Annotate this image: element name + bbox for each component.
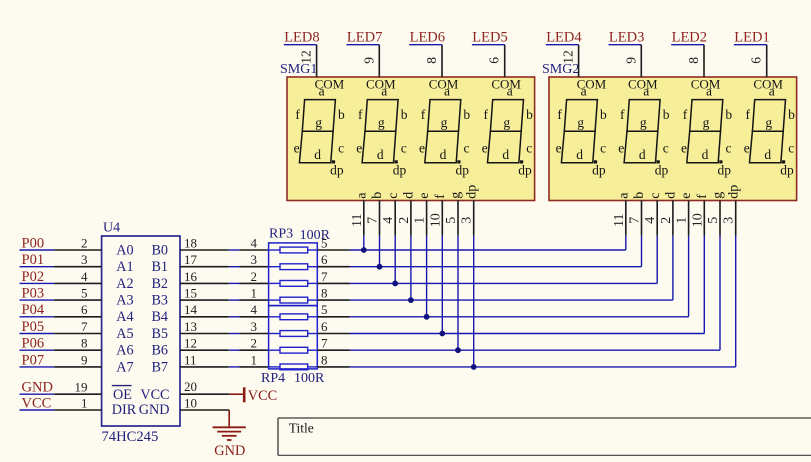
junction at SMG1 pin b xyxy=(377,264,383,270)
svg-text:c: c xyxy=(663,141,669,156)
svg-text:e: e xyxy=(419,141,425,156)
svg-text:74HC245: 74HC245 xyxy=(102,429,159,445)
U4 pin A5 (#7) wire with net label P05 xyxy=(20,319,134,342)
pin number 9 (SMG1 COM2) xyxy=(361,57,376,64)
junction at SMG1 pin dp xyxy=(471,364,477,370)
svg-text:18: 18 xyxy=(184,235,197,250)
svg-text:d: d xyxy=(576,147,583,162)
svg-text:1: 1 xyxy=(413,217,428,224)
svg-text:g: g xyxy=(577,115,584,130)
pin number 12 (SMG2 COM1) xyxy=(561,50,576,64)
svg-text:f: f xyxy=(483,107,488,122)
svg-text:1: 1 xyxy=(81,395,88,410)
svg-text:e: e xyxy=(482,141,488,156)
svg-text:f: f xyxy=(620,107,625,122)
svg-text:9: 9 xyxy=(81,352,88,367)
U4 pin B0 (#18) wire to RP pin 4 xyxy=(151,235,268,258)
svg-text:g: g xyxy=(441,115,448,130)
designator SMG2 xyxy=(542,62,579,77)
svg-text:1: 1 xyxy=(251,286,258,301)
wire segment-e net: row to SMG2 pin e xyxy=(350,236,689,317)
svg-text:A2: A2 xyxy=(116,276,133,292)
svg-text:dp: dp xyxy=(518,163,532,178)
U4 pin A7 (#9) wire with net label P07 xyxy=(20,352,134,375)
wire segment-b net: row to SMG2 pin b xyxy=(350,236,642,267)
svg-text:d: d xyxy=(702,147,709,162)
wire and net label LED7 xyxy=(347,29,383,45)
svg-text:g: g xyxy=(378,115,385,130)
svg-text:c: c xyxy=(726,141,732,156)
designator RP4 xyxy=(261,371,285,386)
svg-text:P06: P06 xyxy=(22,336,45,352)
U4 pin VCC (#20) wire xyxy=(180,379,229,394)
svg-text:7: 7 xyxy=(628,217,643,224)
U4 pin A1 (#3) wire with net label P01 xyxy=(20,252,134,275)
svg-text:A1: A1 xyxy=(116,259,133,275)
wire segment-f net: row to SMG2 pin f xyxy=(350,236,705,334)
svg-text:B4: B4 xyxy=(151,309,168,325)
svg-text:LED6: LED6 xyxy=(410,29,445,45)
RP4 output pin 5 xyxy=(317,302,349,317)
pin dp (#3) of SMG2 xyxy=(722,185,742,236)
pin a (#11) of SMG2 xyxy=(612,192,632,236)
pin a (#11) of SMG1 xyxy=(350,192,370,236)
svg-text:GND: GND xyxy=(139,402,170,418)
digit SMG2.1 seven-segment xyxy=(556,83,607,177)
svg-text:f: f xyxy=(421,107,426,122)
wire SMG1 pin a drop xyxy=(363,236,365,250)
wire and net label LED1 xyxy=(734,29,770,45)
U4 pin B7 (#11) wire to RP pin 1 xyxy=(151,352,268,375)
svg-text:b: b xyxy=(663,107,670,122)
svg-text:7: 7 xyxy=(366,217,381,224)
pin f (#10) of SMG2 xyxy=(690,194,710,236)
svg-text:8: 8 xyxy=(321,352,328,367)
svg-text:g: g xyxy=(711,192,726,199)
svg-text:4: 4 xyxy=(381,217,396,224)
junction at SMG1 pin c xyxy=(392,281,398,287)
wire and net label LED8 xyxy=(284,29,320,45)
svg-text:9: 9 xyxy=(361,57,376,64)
svg-text:P02: P02 xyxy=(22,269,45,285)
pin number 8 (SMG1 COM3) xyxy=(424,57,439,64)
svg-text:A6: A6 xyxy=(116,343,133,359)
pin f (#10) of SMG1 xyxy=(428,194,448,236)
pin b (#7) of SMG2 xyxy=(628,192,648,236)
resistor RP3.3 xyxy=(269,281,318,287)
power port VCC xyxy=(229,387,277,404)
svg-text:10: 10 xyxy=(690,213,705,227)
svg-text:b: b xyxy=(370,192,385,199)
resistor RP4.2 xyxy=(269,331,318,337)
U4 pin OE (#19) wire with net label GND xyxy=(20,380,170,403)
svg-text:4: 4 xyxy=(643,217,658,224)
U4 pin B5 (#13) wire to RP pin 3 xyxy=(151,319,268,342)
svg-text:a: a xyxy=(616,192,631,199)
pin COM of digit SMG2.2 xyxy=(628,45,658,92)
svg-text:4: 4 xyxy=(251,235,258,250)
pin COM of digit SMG2.3 xyxy=(691,45,721,92)
junction at SMG1 pin e xyxy=(424,314,430,320)
wire SMG1 pin dp drop xyxy=(473,236,475,367)
svg-text:e: e xyxy=(618,141,624,156)
svg-text:dp: dp xyxy=(592,163,606,178)
svg-text:2: 2 xyxy=(659,217,674,224)
resistor RP3.4 xyxy=(269,297,318,303)
svg-text:dp: dp xyxy=(330,163,344,178)
pin COM of digit SMG2.4 xyxy=(753,45,783,92)
svg-text:e: e xyxy=(417,193,432,199)
svg-text:g: g xyxy=(449,192,464,199)
svg-text:4: 4 xyxy=(81,269,88,284)
svg-text:c: c xyxy=(788,141,794,156)
junction at SMG1 pin d xyxy=(408,297,414,303)
svg-text:11: 11 xyxy=(350,214,365,227)
pin COM of digit SMG1.2 xyxy=(366,45,396,92)
svg-text:U4: U4 xyxy=(103,221,120,236)
value 100R of RP3 xyxy=(300,228,331,243)
digit SMG2.3 seven-segment xyxy=(681,83,732,177)
svg-text:b: b xyxy=(401,107,408,122)
svg-text:e: e xyxy=(294,141,300,156)
svg-text:e: e xyxy=(744,141,750,156)
svg-text:P07: P07 xyxy=(22,352,45,368)
RP3 output pin 5 xyxy=(317,235,349,250)
svg-text:c: c xyxy=(401,141,407,156)
svg-text:1: 1 xyxy=(675,217,690,224)
svg-text:g: g xyxy=(765,115,772,130)
svg-text:e: e xyxy=(679,193,694,199)
pin number 8 (SMG2 COM3) xyxy=(686,57,701,64)
svg-text:4: 4 xyxy=(251,302,258,317)
svg-text:11: 11 xyxy=(184,352,197,367)
svg-text:b: b xyxy=(725,107,732,122)
svg-text:COM: COM xyxy=(429,77,459,92)
pin g (#5) of SMG1 xyxy=(444,192,464,236)
pin c (#4) of SMG2 xyxy=(643,193,663,236)
svg-text:LED4: LED4 xyxy=(546,29,582,45)
resistor RP4.1 xyxy=(269,314,318,320)
svg-text:5: 5 xyxy=(706,217,721,224)
digit SMG1.4 seven-segment xyxy=(482,83,533,177)
svg-text:14: 14 xyxy=(184,302,198,317)
svg-text:d: d xyxy=(664,192,679,199)
wire and net label LED6 xyxy=(409,29,445,45)
svg-text:d: d xyxy=(764,147,771,162)
wire and net label LED4 xyxy=(546,29,583,45)
svg-text:7: 7 xyxy=(321,336,328,351)
svg-text:g: g xyxy=(640,115,647,130)
U4 pin B3 (#15) wire to RP pin 1 xyxy=(151,286,268,309)
svg-text:3: 3 xyxy=(722,217,737,224)
pin dp (#3) of SMG1 xyxy=(460,185,480,236)
pin e (#1) of SMG2 xyxy=(675,193,695,236)
svg-text:P05: P05 xyxy=(22,319,45,335)
svg-text:c: c xyxy=(648,193,663,199)
svg-text:5: 5 xyxy=(444,217,459,224)
svg-text:12: 12 xyxy=(184,336,197,351)
svg-text:8: 8 xyxy=(321,286,328,301)
svg-text:f: f xyxy=(295,107,300,122)
svg-text:e: e xyxy=(681,141,687,156)
resistor RP3.2 xyxy=(269,264,318,270)
svg-text:LED1: LED1 xyxy=(734,29,769,45)
svg-text:c: c xyxy=(464,141,470,156)
svg-text:8: 8 xyxy=(686,57,701,64)
wire SMG1 pin b drop xyxy=(379,236,381,267)
resistor pack RP3 body xyxy=(269,243,318,306)
svg-text:g: g xyxy=(315,115,322,130)
svg-text:7: 7 xyxy=(321,269,328,284)
svg-text:dp: dp xyxy=(464,185,479,199)
pin number 6 (SMG1 COM4) xyxy=(487,57,502,64)
svg-text:LED8: LED8 xyxy=(284,29,319,45)
pin c (#4) of SMG1 xyxy=(381,193,401,236)
pin COM of digit SMG2.1 xyxy=(577,45,607,92)
wire SMG1 pin e drop xyxy=(426,236,428,317)
pin d (#2) of SMG2 xyxy=(659,192,679,236)
svg-text:6: 6 xyxy=(749,57,764,64)
svg-text:e: e xyxy=(556,141,562,156)
pin number 12 (SMG1 COM1) xyxy=(299,50,314,64)
svg-text:17: 17 xyxy=(184,252,198,267)
wire and net label LED3 xyxy=(609,29,645,45)
pin b (#7) of SMG1 xyxy=(366,192,386,236)
svg-text:B6: B6 xyxy=(151,343,168,359)
svg-text:6: 6 xyxy=(81,302,88,317)
svg-text:d: d xyxy=(402,192,417,199)
svg-text:RP4: RP4 xyxy=(261,371,285,386)
svg-text:c: c xyxy=(386,193,401,199)
svg-text:3: 3 xyxy=(81,252,88,267)
svg-text:g: g xyxy=(503,115,510,130)
svg-text:12: 12 xyxy=(299,50,314,64)
RP3 output pin 8 xyxy=(317,286,349,301)
svg-text:b: b xyxy=(788,107,795,122)
svg-text:c: c xyxy=(526,141,532,156)
svg-text:5: 5 xyxy=(321,302,328,317)
resistor pack RP4 body xyxy=(269,306,318,369)
svg-text:10: 10 xyxy=(184,395,197,410)
pin e (#1) of SMG1 xyxy=(413,193,433,236)
svg-text:A0: A0 xyxy=(116,242,133,258)
junction at SMG1 pin a xyxy=(361,247,367,253)
svg-text:8: 8 xyxy=(81,336,88,351)
svg-text:DIR: DIR xyxy=(112,402,137,418)
svg-text:f: f xyxy=(557,107,562,122)
svg-text:A4: A4 xyxy=(116,309,133,325)
svg-text:P04: P04 xyxy=(22,302,45,318)
U4 pin A2 (#4) wire with net label P02 xyxy=(20,269,134,292)
svg-text:c: c xyxy=(338,141,344,156)
designator RP3 xyxy=(269,227,293,242)
svg-text:dp: dp xyxy=(726,185,741,199)
svg-text:dp: dp xyxy=(655,163,669,178)
RP4 output pin 8 xyxy=(317,352,349,367)
svg-text:COM: COM xyxy=(366,77,396,92)
svg-text:d: d xyxy=(377,147,384,162)
svg-text:B2: B2 xyxy=(151,276,168,292)
junction at SMG1 pin g xyxy=(455,347,461,353)
svg-text:11: 11 xyxy=(612,214,627,227)
svg-text:3: 3 xyxy=(251,319,258,334)
svg-text:b: b xyxy=(463,107,470,122)
svg-text:2: 2 xyxy=(251,269,258,284)
wire segment-c net: row to SMG2 pin c xyxy=(350,236,658,284)
svg-text:d: d xyxy=(639,147,646,162)
part type 74HC245 xyxy=(102,429,159,445)
wire segment-dp net: row to SMG2 pin dp xyxy=(350,236,736,367)
value 100R of RP4 xyxy=(294,371,325,386)
svg-text:P00: P00 xyxy=(22,235,45,251)
svg-text:OE: OE xyxy=(113,387,132,403)
svg-text:b: b xyxy=(600,107,607,122)
display SMG1 body xyxy=(287,77,535,201)
pin COM of digit SMG1.3 xyxy=(429,45,459,92)
svg-text:7: 7 xyxy=(81,319,88,334)
svg-text:f: f xyxy=(745,107,750,122)
U4 pin B1 (#17) wire to RP pin 3 xyxy=(151,252,268,275)
display SMG2 body xyxy=(549,77,797,201)
svg-text:dp: dp xyxy=(393,163,407,178)
U4 pin B6 (#12) wire to RP pin 2 xyxy=(151,336,268,359)
digit SMG1.3 seven-segment xyxy=(419,83,470,177)
svg-text:5: 5 xyxy=(321,235,328,250)
svg-text:f: f xyxy=(683,107,688,122)
designator U4 xyxy=(103,221,120,236)
RP3 output pin 6 xyxy=(317,252,349,267)
digit SMG2.2 seven-segment xyxy=(618,83,669,177)
resistor RP3.1 xyxy=(269,247,318,253)
svg-text:9: 9 xyxy=(623,57,638,64)
svg-text:20: 20 xyxy=(184,379,197,394)
svg-text:8: 8 xyxy=(424,57,439,64)
svg-text:P01: P01 xyxy=(22,252,45,268)
svg-text:COM: COM xyxy=(753,77,783,92)
IC U4 74HC245 body xyxy=(102,236,180,426)
svg-text:LED2: LED2 xyxy=(672,29,707,45)
pin g (#5) of SMG2 xyxy=(706,192,726,236)
svg-text:16: 16 xyxy=(184,269,198,284)
resistor RP4.3 xyxy=(269,347,318,353)
svg-text:a: a xyxy=(354,192,369,199)
svg-text:B5: B5 xyxy=(151,326,168,342)
wire SMG1 pin f drop xyxy=(441,236,443,334)
ground GND xyxy=(213,410,246,459)
svg-text:2: 2 xyxy=(251,336,258,351)
svg-text:COM: COM xyxy=(491,77,521,92)
svg-text:GND: GND xyxy=(214,443,245,459)
svg-text:B1: B1 xyxy=(151,259,168,275)
svg-text:LED7: LED7 xyxy=(347,29,382,45)
svg-text:13: 13 xyxy=(184,319,197,334)
svg-text:RP3: RP3 xyxy=(269,227,293,242)
svg-text:d: d xyxy=(440,147,447,162)
svg-text:6: 6 xyxy=(321,319,328,334)
svg-text:A5: A5 xyxy=(116,326,133,342)
svg-text:dp: dp xyxy=(718,163,732,178)
svg-text:A7: A7 xyxy=(116,359,133,375)
U4 pin GND (#10) wire xyxy=(180,395,229,410)
title block xyxy=(278,418,811,455)
svg-text:d: d xyxy=(314,147,321,162)
svg-text:dp: dp xyxy=(456,163,470,178)
wire SMG1 pin d drop xyxy=(410,236,412,301)
wire and net label LED2 xyxy=(671,29,707,45)
pin COM of digit SMG1.1 xyxy=(315,45,345,92)
svg-text:COM: COM xyxy=(315,77,345,92)
svg-text:10: 10 xyxy=(428,213,443,227)
U4 pin B4 (#14) wire to RP pin 4 xyxy=(151,302,268,325)
svg-text:100R: 100R xyxy=(294,371,325,386)
svg-text:VCC: VCC xyxy=(22,395,52,411)
svg-text:15: 15 xyxy=(184,286,197,301)
svg-text:1: 1 xyxy=(251,352,258,367)
svg-text:d: d xyxy=(502,147,509,162)
svg-text:2: 2 xyxy=(81,235,88,250)
svg-text:P03: P03 xyxy=(22,286,45,302)
pin number 6 (SMG2 COM4) xyxy=(749,57,764,64)
svg-text:B0: B0 xyxy=(151,242,168,258)
digit SMG2.4 seven-segment xyxy=(744,83,795,177)
svg-text:A3: A3 xyxy=(116,293,133,309)
svg-text:c: c xyxy=(600,141,606,156)
svg-text:5: 5 xyxy=(81,286,88,301)
svg-text:f: f xyxy=(433,194,448,199)
svg-text:6: 6 xyxy=(321,252,328,267)
svg-text:COM: COM xyxy=(628,77,658,92)
svg-text:b: b xyxy=(338,107,345,122)
svg-text:2: 2 xyxy=(397,217,412,224)
junction at SMG1 pin f xyxy=(439,331,445,337)
designator SMG1 xyxy=(280,62,317,77)
RP4 output pin 7 xyxy=(317,336,349,351)
wire segment-g net: row to SMG2 pin g xyxy=(350,236,721,351)
RP4 output pin 6 xyxy=(317,319,349,334)
digit SMG1.2 seven-segment xyxy=(356,83,407,177)
U4 pin B2 (#16) wire to RP pin 2 xyxy=(151,269,268,292)
svg-text:b: b xyxy=(632,192,647,199)
U4 pin A6 (#8) wire with net label P06 xyxy=(20,336,134,359)
svg-text:b: b xyxy=(526,107,533,122)
svg-text:GND: GND xyxy=(22,380,53,396)
svg-text:3: 3 xyxy=(251,252,258,267)
resistor RP4.4 xyxy=(269,364,318,370)
svg-text:Title: Title xyxy=(289,421,314,436)
svg-text:g: g xyxy=(703,115,710,130)
svg-text:dp: dp xyxy=(780,163,794,178)
wire segment-d net: row to SMG2 pin d xyxy=(350,236,673,301)
svg-text:VCC: VCC xyxy=(140,387,169,403)
wire segment-a net: row to SMG2 pin a xyxy=(350,236,626,250)
svg-text:e: e xyxy=(356,141,362,156)
svg-text:19: 19 xyxy=(75,380,88,395)
svg-text:B7: B7 xyxy=(151,359,168,375)
pin number 9 (SMG2 COM2) xyxy=(623,57,638,64)
U4 pin A4 (#6) wire with net label P04 xyxy=(20,302,134,325)
U4 pin A3 (#5) wire with net label P03 xyxy=(20,286,134,309)
svg-text:VCC: VCC xyxy=(248,388,277,404)
wire and net label LED5 xyxy=(472,29,508,45)
wire SMG1 pin c drop xyxy=(394,236,396,284)
svg-text:12: 12 xyxy=(561,50,576,64)
svg-text:f: f xyxy=(695,194,710,199)
svg-text:6: 6 xyxy=(487,57,502,64)
svg-text:COM: COM xyxy=(691,77,721,92)
svg-text:3: 3 xyxy=(460,217,475,224)
U4 pin A0 (#2) wire with net label P00 xyxy=(20,235,134,258)
svg-text:COM: COM xyxy=(577,77,607,92)
